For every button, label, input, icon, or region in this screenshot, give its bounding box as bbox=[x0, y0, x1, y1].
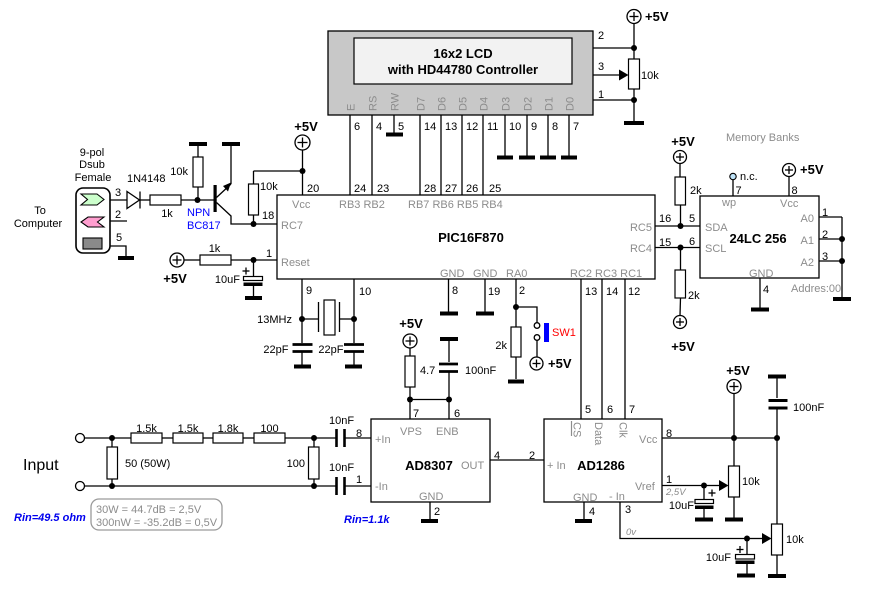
ground U2 bbox=[751, 308, 769, 312]
wire U5 GND bbox=[583, 502, 585, 519]
node RC7 collector bbox=[251, 221, 257, 227]
LCD module U3 bbox=[328, 31, 593, 115]
svg-text:4: 4 bbox=[589, 506, 595, 518]
svg-text:D6: D6 bbox=[437, 97, 449, 111]
microcontroller U1 PIC16F870 bbox=[277, 195, 655, 280]
svg-text:12: 12 bbox=[628, 286, 640, 298]
ground C2 bbox=[294, 365, 311, 369]
svg-text:1.5k: 1.5k bbox=[178, 423, 199, 435]
ground RW bbox=[386, 133, 403, 137]
capacitor C8 10uF Vref bbox=[669, 486, 716, 518]
svg-text:D3: D3 bbox=[501, 97, 513, 111]
svg-text:27: 27 bbox=[445, 183, 457, 195]
svg-text:GND: GND bbox=[749, 268, 774, 280]
ground D1 bbox=[540, 156, 556, 160]
wp pin stub with n.c. bbox=[730, 171, 758, 197]
node LCD pin2 bbox=[631, 45, 637, 51]
svg-text:Rin=1.1k: Rin=1.1k bbox=[344, 514, 390, 526]
wire PIC RC1 to AD1286 Clk bbox=[624, 279, 626, 419]
ground rail bar (emitter) bbox=[222, 142, 240, 146]
svg-text:Rin=49.5 ohm: Rin=49.5 ohm bbox=[14, 512, 86, 524]
svg-text:+In: +In bbox=[375, 434, 391, 446]
resistor R14 100 shunt bbox=[287, 438, 319, 486]
wire PIC RC3 to AD1286 Data bbox=[601, 279, 603, 419]
+5V supply reset bbox=[163, 253, 187, 286]
svg-text:14: 14 bbox=[424, 121, 436, 133]
wire switch to +5V bbox=[536, 341, 538, 358]
svg-text:9-pol: 9-pol bbox=[80, 147, 104, 159]
resistor R8 4.7 bbox=[405, 348, 435, 419]
svg-text:10nF: 10nF bbox=[329, 462, 354, 474]
capacitor C9 10uF offset bbox=[706, 539, 755, 574]
svg-text:1: 1 bbox=[666, 474, 672, 486]
diode D1 1N4148 bbox=[127, 173, 166, 209]
svg-text:30W = 44.7dB = 2,5V: 30W = 44.7dB = 2,5V bbox=[96, 504, 202, 516]
node A2 bbox=[839, 258, 845, 264]
wire J1 pin2 stub bbox=[110, 220, 127, 222]
J1 TX arrow (pink) bbox=[81, 217, 104, 227]
svg-text:22pF: 22pF bbox=[263, 344, 288, 356]
svg-text:13: 13 bbox=[585, 286, 597, 298]
wire PIC RC5 to SDA bbox=[655, 225, 700, 227]
note box power levels bbox=[91, 499, 222, 530]
resistor R5 2k RA0 bbox=[495, 327, 521, 379]
ground D2 bbox=[519, 156, 535, 160]
wiper arrow offset pot bbox=[747, 533, 772, 544]
+5V supply contrast pot bbox=[627, 9, 669, 24]
svg-text:Addres:00: Addres:00 bbox=[791, 283, 841, 295]
svg-text:25: 25 bbox=[489, 183, 501, 195]
svg-text:6: 6 bbox=[689, 236, 695, 248]
wire U2 GND bbox=[759, 278, 761, 308]
resistor R10 1.5k bbox=[131, 423, 162, 443]
svg-text:Input: Input bbox=[23, 457, 59, 474]
supply rail bar 100nF bbox=[768, 375, 786, 379]
potentiometer R15 10k Vref bbox=[729, 466, 761, 518]
svg-text:Vcc: Vcc bbox=[780, 198, 799, 210]
svg-text:4: 4 bbox=[763, 284, 769, 296]
svg-text:+5V: +5V bbox=[294, 119, 318, 134]
svg-text:E: E bbox=[346, 104, 358, 111]
wire A0 bbox=[819, 216, 842, 218]
svg-text:SCL: SCL bbox=[705, 243, 726, 255]
wire U4 GND bbox=[429, 502, 431, 519]
svg-text:RC5: RC5 bbox=[630, 222, 652, 234]
wire A0-A2 bus to ground bbox=[841, 217, 843, 297]
svg-text:8: 8 bbox=[666, 428, 672, 440]
node crystal left bbox=[299, 316, 305, 322]
J1 RX arrow (green) bbox=[81, 194, 104, 205]
svg-text:10k: 10k bbox=[170, 166, 188, 178]
wire LCD D2 stub bbox=[526, 115, 528, 156]
svg-text:12: 12 bbox=[466, 121, 478, 133]
wire PIC pin9 to crystal bbox=[301, 279, 303, 343]
svg-text:16x2 LCD: 16x2 LCD bbox=[433, 46, 492, 61]
svg-text:VPS: VPS bbox=[400, 426, 422, 438]
svg-text:2: 2 bbox=[115, 209, 121, 221]
ground GND8 bbox=[440, 312, 458, 316]
resistor R3 10k pullup bbox=[249, 171, 279, 224]
U5 pin name CS rotated bbox=[571, 421, 583, 437]
wire U5 Vcc rail bbox=[662, 437, 777, 439]
svg-text:4: 4 bbox=[494, 450, 500, 462]
svg-text:D4: D4 bbox=[479, 97, 491, 111]
svg-text:8: 8 bbox=[792, 185, 798, 197]
svg-text:RA0: RA0 bbox=[506, 268, 527, 280]
svg-text:100: 100 bbox=[287, 458, 305, 470]
svg-text:5: 5 bbox=[398, 121, 404, 133]
ground R15 bbox=[725, 518, 743, 522]
wire PIC GND8 bbox=[448, 279, 450, 312]
svg-text:ENB: ENB bbox=[436, 426, 459, 438]
svg-text:GND: GND bbox=[473, 268, 498, 280]
log amp U4 AD8307 bbox=[371, 419, 490, 503]
svg-text:RB3 RB2: RB3 RB2 bbox=[339, 199, 385, 211]
resistor R13 100 bbox=[254, 423, 285, 443]
node Vcc branch bbox=[300, 168, 306, 174]
ground C1 bbox=[245, 296, 262, 300]
svg-text:10uF: 10uF bbox=[669, 500, 694, 512]
svg-text:+5V: +5V bbox=[645, 9, 669, 24]
svg-text:Memory Banks: Memory Banks bbox=[726, 132, 800, 144]
wire OUT to AD1286 bbox=[490, 459, 544, 461]
switch SW1 bbox=[534, 323, 576, 342]
svg-text:AD1286: AD1286 bbox=[577, 458, 625, 473]
node attenuator out bbox=[311, 435, 317, 441]
wire LCD D5 to PIC RB5 bbox=[461, 115, 463, 195]
node bottom left bbox=[109, 483, 115, 489]
svg-text:To: To bbox=[34, 205, 46, 217]
svg-text:10k: 10k bbox=[742, 476, 760, 488]
svg-text:3: 3 bbox=[822, 251, 828, 263]
svg-text:SW1: SW1 bbox=[552, 327, 576, 339]
svg-text:Data: Data bbox=[592, 422, 604, 446]
svg-text:8: 8 bbox=[356, 428, 362, 440]
svg-text:4.7: 4.7 bbox=[420, 365, 435, 377]
svg-text:2: 2 bbox=[434, 506, 440, 518]
svg-text:SDA: SDA bbox=[705, 222, 728, 234]
wire LCD D4 to PIC RB4 bbox=[482, 115, 484, 195]
+5V supply AD8307 bbox=[399, 316, 423, 348]
svg-text:10: 10 bbox=[359, 286, 371, 298]
svg-text:5: 5 bbox=[689, 213, 695, 225]
input terminal top bbox=[76, 434, 85, 443]
svg-text:10k: 10k bbox=[260, 181, 278, 193]
wire PIC RA0 bbox=[515, 279, 517, 327]
svg-text:Reset: Reset bbox=[281, 257, 310, 269]
svg-text:0v: 0v bbox=[626, 527, 637, 538]
svg-text:2k: 2k bbox=[495, 340, 507, 352]
wire LCD RS to PIC RB2 bbox=[371, 115, 373, 195]
svg-text:1: 1 bbox=[356, 474, 362, 486]
node Vcc 100nF bbox=[774, 435, 780, 441]
svg-text:Female: Female bbox=[75, 172, 112, 184]
svg-text:8: 8 bbox=[552, 121, 558, 133]
capacitor C3 22pF bbox=[318, 344, 364, 365]
node VPS bbox=[407, 397, 413, 403]
svg-text:+5V: +5V bbox=[163, 271, 187, 286]
PIC pin numbers top bbox=[307, 183, 501, 195]
wire LCD RW stub bbox=[393, 115, 395, 133]
ground R16 bbox=[768, 574, 786, 578]
svg-text:Dsub: Dsub bbox=[79, 159, 105, 171]
svg-text:14: 14 bbox=[606, 286, 618, 298]
svg-text:7: 7 bbox=[629, 404, 635, 416]
wire PIC pin10 to crystal bbox=[353, 279, 355, 343]
supply rail bar ENB bbox=[440, 337, 458, 341]
svg-text:2,5V: 2,5V bbox=[665, 487, 687, 498]
svg-text:100: 100 bbox=[260, 423, 278, 435]
svg-text:24LC 256: 24LC 256 bbox=[729, 231, 786, 246]
connector J1 9-pol Dsub label bbox=[14, 147, 111, 230]
svg-text:7: 7 bbox=[573, 121, 579, 133]
LCD pin numbers bbox=[354, 121, 579, 133]
+5V supply AD1286 bbox=[726, 363, 750, 466]
capacitor C1 10uF reset bbox=[215, 260, 263, 296]
ground U4 bbox=[421, 519, 438, 523]
svg-text:2k: 2k bbox=[688, 290, 700, 302]
ground A pins bbox=[833, 297, 851, 301]
svg-text:5: 5 bbox=[585, 404, 591, 416]
svg-text:RB7 RB6 RB5 RB4: RB7 RB6 RB5 RB4 bbox=[408, 199, 503, 211]
wire LCD E to PIC RB3 bbox=[349, 115, 351, 195]
PIC pin numbers bottom bbox=[306, 285, 640, 298]
wire A1 bbox=[819, 238, 842, 240]
transistor Q1 NPN BC817 bbox=[187, 183, 277, 233]
svg-text:D2: D2 bbox=[523, 97, 535, 111]
wire LCD D7 to PIC RB7 bbox=[419, 115, 421, 195]
resistor R7 2k SCL pullup bbox=[675, 248, 700, 316]
svg-text:Computer: Computer bbox=[14, 218, 63, 230]
svg-text:11: 11 bbox=[487, 121, 498, 133]
svg-text:1: 1 bbox=[598, 89, 604, 101]
ground U5 bbox=[575, 519, 592, 523]
svg-text:PIC16F870: PIC16F870 bbox=[438, 230, 504, 245]
wire PIC GND19 bbox=[484, 279, 486, 312]
capacitor C2 22pF bbox=[263, 344, 312, 365]
svg-text:1N4148: 1N4148 bbox=[127, 173, 166, 185]
svg-text:OUT: OUT bbox=[461, 460, 485, 472]
node ENB bbox=[446, 397, 452, 403]
wire Vref bbox=[662, 485, 704, 487]
svg-text:+5V: +5V bbox=[399, 316, 423, 331]
eeprom U2 24LC256 bbox=[700, 196, 819, 280]
svg-text:+5V: +5V bbox=[800, 162, 824, 177]
svg-text:5: 5 bbox=[116, 232, 122, 244]
connector J1 body bbox=[76, 188, 110, 253]
resistor R4 1k reset bbox=[200, 243, 231, 265]
resistor R9 50 (50W) bbox=[107, 438, 170, 486]
svg-text:10k: 10k bbox=[786, 534, 804, 546]
ground contrast pot bbox=[624, 121, 644, 125]
ground C8 bbox=[695, 518, 713, 522]
svg-text:GND: GND bbox=[419, 491, 444, 503]
svg-text:7: 7 bbox=[413, 408, 419, 420]
node Vref bbox=[701, 483, 707, 489]
svg-text:2: 2 bbox=[529, 450, 535, 462]
resistor R11 1.5k bbox=[173, 423, 203, 443]
svg-text:A0: A0 bbox=[801, 213, 814, 225]
svg-text:19: 19 bbox=[488, 286, 500, 298]
node LCD pin1 bbox=[631, 97, 637, 103]
node bottom right bbox=[311, 483, 317, 489]
wire input bottom rail bbox=[85, 485, 336, 487]
svg-text:1k: 1k bbox=[161, 208, 173, 220]
svg-text:A2: A2 bbox=[801, 257, 814, 269]
svg-text:BC817: BC817 bbox=[187, 220, 221, 232]
svg-text:4: 4 bbox=[376, 121, 382, 133]
wire PIC RC2 to AD1286 CS bbox=[580, 279, 582, 419]
svg-text:2: 2 bbox=[598, 30, 604, 42]
wire LCD D0 stub bbox=[568, 115, 570, 156]
svg-text:A1: A1 bbox=[801, 235, 814, 247]
+5V supply U2 Vcc bbox=[783, 162, 824, 197]
node reset bbox=[251, 257, 257, 263]
svg-text:GND: GND bbox=[573, 492, 598, 504]
svg-text:1k: 1k bbox=[209, 243, 221, 255]
resistor R12 1.8k bbox=[213, 423, 243, 443]
svg-text:NPN: NPN bbox=[187, 207, 210, 219]
svg-text:RC7: RC7 bbox=[281, 220, 303, 232]
svg-text:3: 3 bbox=[598, 61, 604, 73]
svg-text:13: 13 bbox=[445, 121, 457, 133]
node crystal right bbox=[351, 316, 357, 322]
svg-text:n.c.: n.c. bbox=[740, 171, 758, 183]
svg-text:10: 10 bbox=[509, 121, 521, 133]
svg-text:D5: D5 bbox=[458, 97, 470, 111]
svg-text:22pF: 22pF bbox=[318, 344, 343, 356]
svg-text:1.5k: 1.5k bbox=[136, 423, 157, 435]
wire input top rail bbox=[85, 437, 337, 439]
ground C3 bbox=[345, 365, 362, 369]
node A1 bbox=[839, 236, 845, 242]
wire emitter up bbox=[230, 146, 232, 184]
svg-text:28: 28 bbox=[424, 183, 436, 195]
capacitor C7 100nF Vcc bbox=[769, 379, 825, 525]
svg-text:RS: RS bbox=[368, 96, 380, 111]
svg-text:2: 2 bbox=[519, 285, 525, 297]
svg-text:D7: D7 bbox=[416, 97, 428, 111]
svg-text:18: 18 bbox=[262, 210, 274, 222]
svg-text:2: 2 bbox=[822, 229, 828, 241]
wire U5 -In to offset pot bbox=[620, 502, 747, 539]
svg-text:10uF: 10uF bbox=[215, 274, 240, 286]
svg-text:Vcc: Vcc bbox=[292, 199, 311, 211]
svg-text:1.8k: 1.8k bbox=[218, 423, 239, 435]
wire LCD D3 stub bbox=[504, 115, 506, 156]
node SCL bbox=[678, 245, 684, 251]
ground C9 bbox=[737, 574, 755, 578]
+5V supply SCL pullup bbox=[671, 316, 695, 355]
ground GND19 bbox=[476, 312, 494, 316]
svg-text:8: 8 bbox=[452, 285, 458, 297]
svg-text:100nF: 100nF bbox=[465, 365, 496, 377]
svg-text:1: 1 bbox=[822, 207, 828, 219]
ground R5 bbox=[508, 380, 524, 384]
resistor R2 10k base bbox=[170, 146, 203, 200]
wiper arrow contrast pot bbox=[619, 70, 629, 81]
wire R1 to base bbox=[181, 199, 214, 201]
svg-text:10nF: 10nF bbox=[329, 415, 354, 427]
+5V supply SW1 bbox=[530, 356, 572, 371]
svg-text:300nW = -35.2dB = 0,5V: 300nW = -35.2dB = 0,5V bbox=[96, 517, 218, 529]
svg-text:20: 20 bbox=[307, 183, 319, 195]
svg-text:D0: D0 bbox=[565, 97, 577, 111]
capacitor C5 10nF top bbox=[329, 415, 371, 447]
node attenuator in bbox=[109, 435, 115, 441]
svg-text:24: 24 bbox=[354, 183, 366, 195]
svg-text:RC2 RC3 RC1: RC2 RC3 RC1 bbox=[570, 268, 642, 280]
wire LCD D1 stub bbox=[547, 115, 549, 156]
svg-text:1: 1 bbox=[266, 248, 272, 260]
wire LCD D6 to PIC RB6 bbox=[440, 115, 442, 195]
svg-text:6: 6 bbox=[454, 408, 460, 420]
svg-text:wp: wp bbox=[721, 197, 736, 209]
svg-text:CS: CS bbox=[571, 422, 583, 437]
resistor R1 1k bbox=[150, 195, 181, 220]
svg-text:10k: 10k bbox=[641, 70, 659, 82]
potentiometer R16 10k offset bbox=[772, 524, 805, 574]
svg-text:3: 3 bbox=[625, 504, 631, 516]
wire LCD pin2 to +5V bbox=[593, 47, 634, 49]
potentiometer 10k contrast bbox=[629, 59, 660, 89]
svg-text:D1: D1 bbox=[544, 97, 556, 111]
svg-text:6: 6 bbox=[607, 404, 613, 416]
svg-text:RC4: RC4 bbox=[630, 243, 652, 255]
svg-text:+5V: +5V bbox=[671, 339, 695, 354]
svg-text:+5V: +5V bbox=[671, 134, 695, 149]
wire LCD pin3 wiper bbox=[593, 74, 620, 76]
wire J1 pin5 to ground bbox=[110, 246, 126, 256]
svg-text:+5V: +5V bbox=[548, 356, 572, 371]
input terminal bottom bbox=[76, 482, 85, 491]
svg-text:Clk: Clk bbox=[617, 422, 629, 438]
svg-text:6: 6 bbox=[354, 121, 360, 133]
svg-text:RW: RW bbox=[390, 92, 402, 111]
ground J1 pin5 bbox=[118, 256, 134, 260]
svg-text:16: 16 bbox=[659, 213, 671, 225]
svg-text:23: 23 bbox=[377, 183, 389, 195]
node RA0 bbox=[513, 304, 519, 310]
svg-text:+5V: +5V bbox=[726, 363, 750, 378]
wire J1 pin3 to diode bbox=[110, 199, 127, 201]
svg-text:GND: GND bbox=[440, 268, 465, 280]
wire LCD pin1 bbox=[593, 99, 634, 101]
svg-text:2k: 2k bbox=[690, 185, 702, 197]
resistor R6 2k SDA pullup bbox=[675, 164, 702, 227]
wire pullup to Vcc bbox=[254, 170, 303, 172]
+5V supply SDA pullup bbox=[671, 134, 695, 164]
node SDA bbox=[678, 223, 684, 229]
svg-text:7: 7 bbox=[736, 185, 742, 197]
svg-text:AD8307: AD8307 bbox=[405, 458, 453, 473]
wire R4 to Reset pin bbox=[231, 259, 277, 261]
ground D3 bbox=[497, 156, 513, 160]
svg-text:Vref: Vref bbox=[635, 481, 656, 493]
svg-text:-In: -In bbox=[375, 481, 388, 493]
svg-text:13MHz: 13MHz bbox=[257, 314, 292, 326]
capacitor C6 10nF bottom bbox=[329, 462, 371, 495]
J1 GND pad (gray) bbox=[83, 238, 102, 249]
wire PIC RC4 to SCL bbox=[655, 247, 700, 249]
ground D0 bbox=[561, 156, 577, 160]
wiper arrow Vref pot bbox=[704, 480, 729, 491]
node offset bbox=[744, 536, 750, 542]
svg-text:Vcc: Vcc bbox=[639, 434, 658, 446]
node Vcc +5V bbox=[731, 435, 737, 441]
svg-text:- In: - In bbox=[609, 491, 625, 503]
node base bbox=[195, 197, 201, 203]
